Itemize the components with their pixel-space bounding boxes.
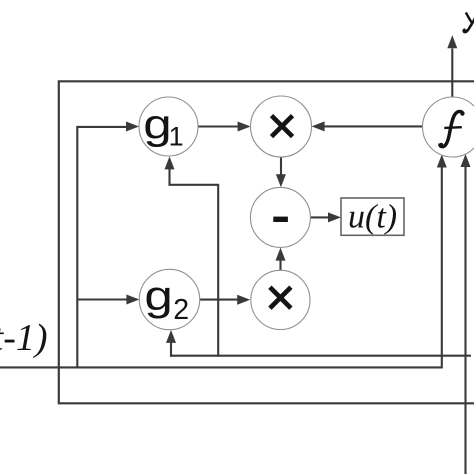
node circle g2: [139, 269, 199, 329]
node circle times2: [251, 270, 310, 329]
svg-text:u(t): u(t): [348, 199, 397, 236]
wire lower bus line C: [170, 355, 471, 357]
wire times1 down to minus: [280, 157, 282, 176]
svg-text:2: 2: [173, 294, 189, 326]
arrowhead into minus bottom: [276, 248, 286, 261]
wire times2 up to minus: [279, 260, 281, 270]
node circle g1: [139, 97, 198, 156]
arrowhead into g2 left: [126, 295, 139, 305]
u(t) output box: [341, 198, 404, 235]
svg-text:h(t-1): h(t-1): [0, 317, 48, 359]
wire f to times1: [323, 125, 423, 127]
node circle f: [423, 97, 474, 157]
wire g1 to times1: [198, 125, 239, 127]
node circle times1: [251, 96, 312, 157]
label g2: [144, 273, 172, 320]
label g1: [143, 101, 171, 148]
arrowhead into g2 bottom: [166, 330, 176, 343]
arrowhead into u(t) box: [328, 212, 341, 222]
arrowhead into minus top: [276, 174, 286, 187]
arrowhead into times1 right: [312, 121, 325, 131]
times2 cross symbol: [270, 287, 291, 308]
arrowhead into times1 left: [238, 122, 251, 132]
arrowhead into g1 bottom: [165, 156, 175, 169]
outer cell box (open at right, cropped): [59, 81, 474, 403]
svg-text:1: 1: [169, 122, 184, 152]
arrowhead into f bottom-right: [461, 154, 471, 167]
wire branch from bus up into g2 bottom: [170, 334, 172, 357]
wire h(t-1) input line with turn up toward f: [0, 166, 442, 368]
wire f up to output y: [451, 49, 453, 97]
arrowhead output y: [447, 35, 457, 48]
minus symbol: [273, 217, 288, 222]
label f: [439, 111, 464, 147]
arrowhead into times2 left: [237, 295, 250, 305]
wire x(t) vertical input line to f: [464, 166, 466, 474]
wire minus to u(t) box: [310, 216, 329, 218]
svg-text:g: g: [143, 101, 171, 148]
label y output (cropped at top right): [464, 9, 474, 33]
wire g2 to times2: [200, 299, 239, 301]
arrowhead into f bottom-left: [437, 155, 447, 168]
svg-text:g: g: [144, 273, 172, 320]
node circle minus: [250, 187, 310, 247]
wire recurrent branch vertical at left feeding g1 and g2: [76, 127, 126, 369]
arrowhead into g1 left: [126, 122, 139, 132]
times1 cross symbol: [272, 116, 293, 137]
wire branch from bus up and left into g1 bottom: [170, 161, 219, 357]
